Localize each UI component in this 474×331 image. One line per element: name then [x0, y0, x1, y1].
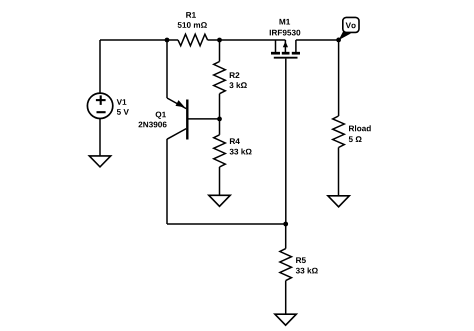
- label R4 value 33 kOhm: [230, 149, 252, 155]
- ground below R5: [275, 314, 296, 325]
- V1 minus sign: [97, 111, 106, 113]
- wire bottom horizontal (collector to gate node): [167, 223, 286, 225]
- wire emitter vertical: [166, 40, 168, 98]
- MOSFET M1 gate bar: [274, 57, 298, 59]
- label V1 designator: [117, 99, 127, 105]
- resistor R5 zigzag: [280, 249, 292, 281]
- node junction gate/collector/R5 (dot): [283, 222, 288, 227]
- wire top rail middle segment (R1 to M1 body point): [208, 39, 286, 41]
- wire Vo node down to Rload: [338, 40, 340, 116]
- wire Rload bottom lead: [338, 148, 340, 196]
- label R5 value 33 kOhm: [296, 268, 318, 274]
- resistor R1 zigzag: [178, 34, 208, 46]
- node Vo flag box: [343, 17, 359, 32]
- resistor R2 zigzag: [214, 62, 226, 94]
- wire R4 top lead: [219, 119, 221, 135]
- label R5 designator: [296, 257, 306, 263]
- label Q1 type 2N3906: [139, 122, 167, 128]
- MOSFET M1 drain lead: [295, 40, 297, 52]
- wire R5 bottom lead: [285, 281, 287, 315]
- transistor Q1 emitter diagonal with PNP arrow: [167, 98, 186, 109]
- wire R4 bottom lead: [219, 167, 221, 195]
- label V1 value 5 V: [117, 109, 129, 115]
- label R1 designator: [186, 12, 196, 18]
- node Vo junction (dot): [336, 38, 341, 43]
- node Vo flag pointer: [339, 31, 351, 40]
- wire R5 top lead: [285, 224, 287, 249]
- wire top rail left segment (V1 to R1): [100, 39, 178, 41]
- V1 plus sign: [96, 95, 106, 105]
- label Vo: [346, 23, 356, 29]
- transistor Q1 collector diagonal: [167, 129, 186, 140]
- MOSFET M1 source lead: [275, 40, 277, 52]
- label Rload designator: [349, 125, 371, 131]
- ground below V1: [89, 156, 110, 167]
- label R1 value 510 mOhm: [178, 22, 207, 28]
- ground below R4: [209, 195, 230, 206]
- label M1 designator: [280, 19, 291, 25]
- label Q1 designator: [156, 112, 166, 119]
- label R4 designator: [230, 138, 240, 144]
- ground below Rload: [328, 196, 349, 207]
- voltage source V1 circle: [87, 93, 112, 118]
- wire V1 top lead: [99, 40, 101, 93]
- wire R2 top lead: [219, 40, 221, 62]
- node junction base/R2/R4 (dot): [217, 117, 222, 122]
- wire M1 gate lead down to R5 node: [285, 59, 287, 224]
- wire Q1 base to R2/R4 node: [188, 118, 219, 120]
- wire R2 bottom lead: [219, 94, 221, 119]
- node junction at emitter branch (dot): [165, 38, 170, 43]
- wire top rail right segment (drain to Vo node): [296, 39, 339, 41]
- label R2 value 3 kOhm: [229, 82, 246, 88]
- label Rload value 5 Ohm: [349, 136, 362, 142]
- MOSFET M1 body connection with arrow: [283, 40, 288, 53]
- transistor Q1 base bar: [186, 100, 188, 140]
- label M1 type IRF9530: [270, 30, 301, 36]
- MOSFET M1 channel bars: [271, 52, 300, 55]
- label R2 designator: [230, 72, 240, 78]
- wire collector vertical: [166, 139, 168, 224]
- node junction R1 right / R2 top (dot): [217, 38, 222, 43]
- resistor R4 zigzag: [214, 135, 226, 167]
- resistor Rload zigzag: [333, 116, 345, 148]
- wire V1 bottom lead: [99, 118, 101, 156]
